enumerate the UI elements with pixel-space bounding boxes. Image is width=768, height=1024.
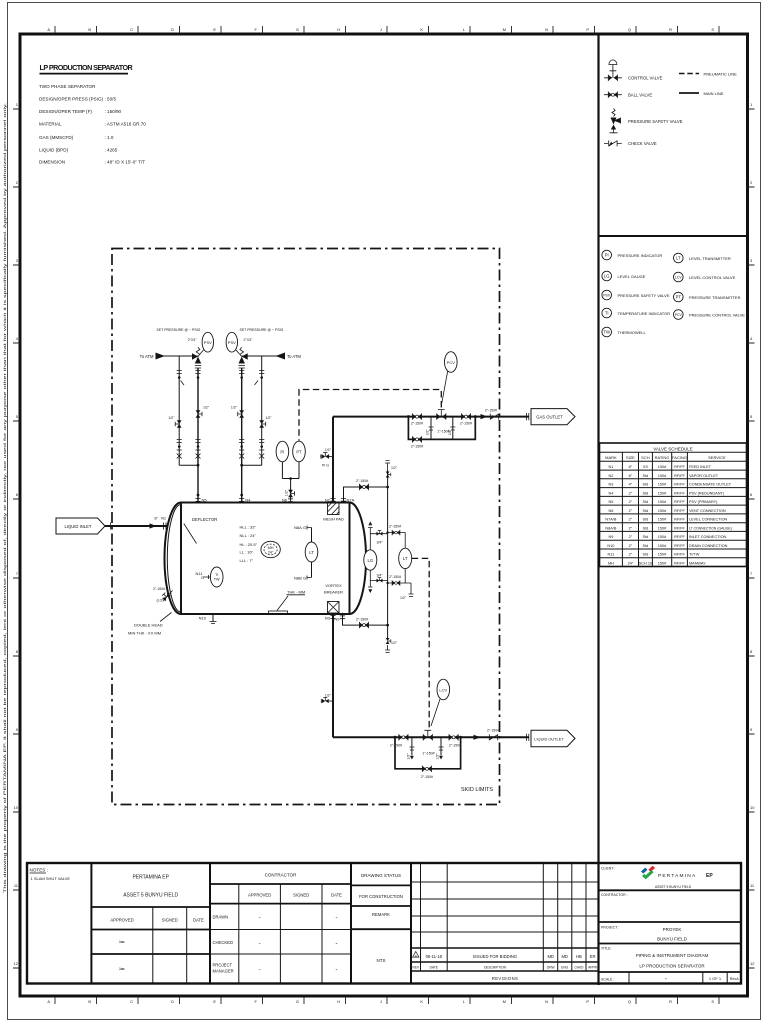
- svg-text:GAS (MMSCFD): GAS (MMSCFD): [39, 135, 74, 140]
- svg-text:N10: N10: [199, 616, 207, 621]
- left zone ticks and numbers: [13, 102, 20, 968]
- svg-text:10: 10: [750, 805, 755, 810]
- svg-text:LEVEL CONNECTION: LEVEL CONNECTION: [689, 518, 728, 522]
- svg-text:FACING: FACING: [672, 455, 687, 460]
- svg-text:05-11-18: 05-11-18: [426, 954, 443, 959]
- right zone ticks and numbers: [748, 102, 756, 968]
- svg-text:DIMENSION: DIMENSION: [39, 160, 65, 165]
- svg-text:G: G: [296, 999, 299, 1004]
- legend: pressure safety valve symbol: [610, 109, 621, 133]
- instrument bubble LT (internal): [305, 542, 318, 562]
- svg-text:N7A: N7A: [347, 498, 355, 503]
- svg-text:LLL : 7": LLL : 7": [240, 558, 254, 563]
- svg-text:REVISIONS: REVISIONS: [492, 976, 518, 981]
- svg-text:Std: Std: [643, 535, 649, 539]
- svg-text:N2: N2: [608, 474, 613, 478]
- svg-text:RF/FF: RF/FF: [674, 518, 685, 522]
- svg-text:M: M: [503, 999, 506, 1004]
- svg-text:Std: Std: [643, 509, 649, 513]
- liquid inlet banner: [56, 518, 105, 534]
- client cell with pertamina logo: [599, 866, 742, 972]
- svg-text:EP: EP: [706, 873, 713, 879]
- svg-text:DATE: DATE: [430, 965, 438, 969]
- svg-text:PI: PI: [280, 449, 284, 454]
- svg-text:BALL VALVE: BALL VALVE: [628, 93, 652, 98]
- svg-text:SCH 10: SCH 10: [639, 561, 652, 565]
- svg-text:PROYEK: PROYEK: [663, 927, 682, 932]
- pressure gauge tap on gas riser: [328, 456, 333, 458]
- internal LT standpipe with taps N8A/N8B: [294, 525, 318, 581]
- svg-text:2"-150#: 2"-150#: [356, 479, 368, 483]
- PSV-B inlet riser from nozzle N4: [231, 368, 251, 503]
- svg-text:1/2": 1/2": [436, 753, 440, 760]
- level gauge LG assembly: [364, 522, 388, 594]
- svg-text:DRAWN: DRAWN: [213, 915, 229, 920]
- svg-text:E: E: [213, 27, 216, 32]
- PSV-B spare leg: [242, 356, 273, 465]
- left head drain valve 2"-150# (LO): [153, 587, 173, 603]
- svg-text:DRAIN CONNECTION: DRAIN CONNECTION: [689, 544, 728, 548]
- svg-text:: 4265: : 4265: [105, 148, 118, 153]
- svg-text:K: K: [420, 999, 423, 1004]
- svg-text:-: -: [665, 977, 667, 983]
- svg-text:CHECKED: CHECKED: [213, 940, 233, 945]
- pneumatic signal line LT to LCV: [412, 558, 430, 729]
- svg-text:N: N: [545, 27, 548, 32]
- liquid line flow arrow: [474, 735, 481, 740]
- svg-text:Std: Std: [643, 553, 649, 557]
- svg-text:10: 10: [14, 805, 19, 810]
- PSV-B relief header to atmosphere: [242, 353, 302, 360]
- svg-text:N8B: N8B: [294, 576, 302, 581]
- svg-text:2"-150#: 2"-150#: [421, 775, 433, 779]
- bubble PI: [602, 250, 612, 260]
- svg-text:150#: 150#: [658, 474, 667, 478]
- svg-text:D: D: [171, 27, 174, 32]
- svg-text:DESIGN/OPER PRESS (PSIG): DESIGN/OPER PRESS (PSIG): [39, 97, 104, 102]
- svg-text:RF/FF: RF/FF: [674, 553, 685, 557]
- svg-text:150#: 150#: [658, 500, 667, 504]
- top zone ticks and letters: [47, 26, 719, 33]
- vessel level list: [240, 524, 258, 563]
- svg-text:1/2": 1/2": [426, 429, 430, 435]
- svg-text:HB: HB: [576, 954, 582, 959]
- svg-text:REMARK: REMARK: [372, 912, 390, 917]
- liquid line check valve: [489, 734, 497, 740]
- svg-text:G: G: [303, 576, 306, 581]
- feed inlet line to N1: [105, 516, 167, 530]
- svg-text:A: A: [47, 999, 50, 1004]
- PSV-A inlet riser from nozzle N5: [195, 368, 209, 503]
- svg-text:PSV (REDUNDANT): PSV (REDUNDANT): [689, 491, 725, 495]
- svg-text:PRESSURE SAFETY VALVE: PRESSURE SAFETY VALVE: [628, 119, 683, 124]
- svg-text:SCH: SCH: [641, 455, 650, 460]
- svg-text:≔: ≔: [119, 967, 125, 973]
- svg-text:ASSET 5 BUNYU FIELD: ASSET 5 BUNYU FIELD: [123, 893, 178, 899]
- svg-text:1/2": 1/2": [168, 416, 175, 420]
- svg-text:TI: TI: [215, 573, 218, 577]
- svg-text:TI/TW: TI/TW: [689, 553, 700, 557]
- svg-text:12: 12: [14, 961, 19, 966]
- svg-text:DATE: DATE: [331, 893, 342, 898]
- svg-text:PSV: PSV: [228, 340, 236, 345]
- svg-text:: ASTM A516 GR.70: : ASTM A516 GR.70: [105, 122, 147, 127]
- svg-text:SET PRESSURE @ ~ PSIG: SET PRESSURE @ ~ PSIG: [157, 328, 201, 332]
- level control valve LCV: [423, 730, 432, 740]
- bottom weir plate note: [269, 590, 306, 615]
- svg-text:N1: N1: [608, 465, 613, 469]
- svg-text:1/2": 1/2": [284, 489, 288, 496]
- svg-text:N6: N6: [608, 509, 613, 513]
- svg-text:SET PRESSURE @ ~ PSIG: SET PRESSURE @ ~ PSIG: [240, 328, 284, 332]
- svg-text:2"-150#: 2"-150#: [487, 728, 499, 732]
- svg-text:DEFLECTOR: DEFLECTOR: [192, 517, 217, 522]
- gas outlet banner: [531, 409, 575, 425]
- svg-text:PERTAMINA EP: PERTAMINA EP: [132, 875, 169, 881]
- drain tap on condensate riser: [328, 700, 333, 702]
- svg-text:G: G: [303, 525, 306, 530]
- svg-text:NOTES :: NOTES :: [30, 868, 48, 873]
- bubble LCV: [674, 272, 684, 282]
- svg-text:LG: LG: [604, 274, 610, 279]
- svg-text:TW: TW: [214, 578, 220, 582]
- svg-text:SCALE :: SCALE :: [601, 978, 614, 982]
- mesh pad demister: [323, 503, 344, 522]
- svg-text:N2: N2: [325, 498, 331, 503]
- svg-text:PSV: PSV: [204, 340, 212, 345]
- gas line block valve 2: [461, 413, 470, 419]
- svg-text:N5: N5: [202, 498, 208, 503]
- right column divider: [597, 34, 599, 985]
- svg-text:PRESSURE INDICATOR: PRESSURE INDICATOR: [618, 253, 663, 258]
- instrument legend right column: [674, 253, 684, 319]
- manhole MH 24": [261, 541, 280, 557]
- title cell: [601, 947, 708, 969]
- svg-text:MIN THK - XX MM: MIN THK - XX MM: [128, 631, 161, 636]
- svg-text:N6: N6: [282, 498, 288, 503]
- separator vessel V-100 shell: [165, 503, 367, 615]
- instrument legend left column: [602, 250, 612, 337]
- svg-text:150#: 150#: [658, 518, 667, 522]
- svg-text:LT: LT: [309, 550, 314, 555]
- svg-text:E: E: [213, 999, 216, 1004]
- svg-text:150#: 150#: [658, 483, 667, 487]
- vortex breaker: [324, 583, 343, 613]
- svg-text:1/2": 1/2": [407, 753, 411, 760]
- svg-text:PRESSURE TRANSMITTER: PRESSURE TRANSMITTER: [689, 295, 741, 300]
- svg-text:PI: PI: [605, 253, 609, 258]
- legend: check valve symbol: [604, 140, 622, 146]
- svg-text:H: H: [337, 999, 340, 1004]
- svg-text:SIGNED: SIGNED: [162, 918, 178, 923]
- svg-text:To ATM: To ATM: [140, 354, 154, 359]
- svg-text:LT: LT: [676, 256, 681, 261]
- pneumatic signal line PT to PCV: [299, 390, 441, 441]
- svg-text:RATING: RATING: [655, 455, 670, 460]
- PSV-A instrument bubble: [188, 332, 214, 354]
- svg-text:MH: MH: [608, 561, 614, 565]
- bleed tees between gas valves: [431, 417, 453, 440]
- svg-text:RF/FF: RF/FF: [674, 535, 685, 539]
- svg-text:Std: Std: [643, 518, 649, 522]
- svg-text:2"-150#: 2"-150#: [389, 575, 401, 579]
- svg-text:2"-150#: 2"-150#: [411, 444, 423, 448]
- svg-text:K: K: [420, 27, 423, 32]
- svg-text:P: P: [586, 27, 589, 32]
- svg-text:2"-150#: 2"-150#: [153, 587, 165, 591]
- svg-text:H: H: [337, 27, 340, 32]
- LT drain tee: [405, 583, 413, 597]
- svg-text:MATERIAL: MATERIAL: [39, 122, 62, 127]
- svg-text:SIGNED: SIGNED: [293, 893, 309, 898]
- svg-text:HL : 20.5": HL : 20.5": [240, 542, 258, 547]
- level transmitter LT assembly: [386, 525, 413, 600]
- svg-text:B: B: [88, 27, 91, 32]
- svg-text:N8A: N8A: [294, 525, 302, 530]
- svg-text:MD: MD: [561, 954, 568, 959]
- svg-text:To ATM: To ATM: [287, 354, 301, 359]
- svg-text:TI: TI: [605, 311, 609, 316]
- instrument bubble TI/TW: [210, 567, 223, 587]
- svg-text:TITLE:: TITLE:: [601, 947, 612, 951]
- svg-text:RF/FF: RF/FF: [674, 465, 685, 469]
- svg-text:3/4": 3/4": [376, 574, 383, 578]
- svg-text:LEVEL CONTROL VALVE: LEVEL CONTROL VALVE: [689, 275, 736, 280]
- svg-text:CHECK VALVE: CHECK VALVE: [628, 141, 657, 146]
- svg-text:PSV: PSV: [603, 294, 611, 298]
- svg-text:FOR CONSTRUCTION: FOR CONSTRUCTION: [359, 894, 403, 899]
- PSV-A relief header to atmosphere: [140, 353, 198, 360]
- bubble TW: [602, 327, 612, 337]
- svg-text:1/2": 1/2": [325, 693, 332, 697]
- revision header row: [413, 965, 598, 969]
- legend: main line sample: [679, 92, 699, 94]
- svg-text:-: -: [259, 916, 261, 922]
- svg-text:Q: Q: [628, 999, 631, 1004]
- valve schedule header row: [605, 455, 726, 460]
- svg-text:1/2": 1/2": [391, 641, 398, 645]
- svg-text:RF/FF: RF/FF: [674, 491, 685, 495]
- svg-text:C: C: [130, 999, 133, 1004]
- legend: pneumatic line sample: [679, 73, 699, 75]
- liquid outlet main line: [333, 728, 529, 779]
- liquid line block valve 2: [449, 734, 458, 740]
- svg-text:N4: N4: [608, 491, 613, 495]
- bubble LG: [602, 271, 612, 281]
- svg-text:150#: 150#: [658, 491, 667, 495]
- svg-text:24": 24": [628, 561, 634, 565]
- svg-text:Std: Std: [643, 544, 649, 548]
- svg-text:RF/FF: RF/FF: [674, 526, 685, 530]
- legend: ball valve symbol: [604, 92, 622, 98]
- svg-text:S: S: [711, 999, 714, 1004]
- svg-text:(LO): (LO): [157, 599, 164, 603]
- svg-text:DESIGN/OPER TEMP (F): DESIGN/OPER TEMP (F): [39, 109, 92, 114]
- svg-text:2"-150#: 2"-150#: [356, 618, 368, 622]
- svg-text:MARK: MARK: [605, 455, 617, 460]
- svg-text:N7A/B: N7A/B: [605, 518, 616, 522]
- svg-text:DESCRIPTION: DESCRIPTION: [484, 965, 506, 969]
- svg-text:J: J: [380, 27, 382, 32]
- bubble PCV: [674, 310, 684, 320]
- svg-text:N3: N3: [325, 616, 331, 621]
- svg-text:ENG: ENG: [561, 965, 568, 969]
- bubble LT: [674, 253, 684, 263]
- svg-text:1"-150#: 1"-150#: [422, 751, 434, 755]
- svg-text:NLL : 24": NLL : 24": [240, 533, 257, 538]
- condensate riser from nozzle N3: [321, 614, 335, 737]
- svg-text:150#: 150#: [658, 465, 667, 469]
- liquid line block valve 1: [399, 734, 408, 740]
- svg-text:FEED INLET: FEED INLET: [689, 465, 712, 469]
- svg-text:MESH PAD: MESH PAD: [323, 517, 344, 522]
- svg-text:LCV: LCV: [439, 687, 447, 692]
- svg-text:LIQUID OUTLET: LIQUID OUTLET: [534, 736, 564, 741]
- svg-text:2"-150#: 2"-150#: [390, 743, 402, 747]
- svg-text:SKID LIMITS: SKID LIMITS: [461, 787, 493, 793]
- svg-text:2"-150#: 2"-150#: [460, 422, 472, 426]
- svg-text:Std: Std: [643, 491, 649, 495]
- svg-text:2"-150#: 2"-150#: [389, 525, 401, 529]
- svg-text:B: B: [88, 999, 91, 1004]
- svg-text:PT: PT: [676, 295, 682, 300]
- svg-text:RF/FF: RF/FF: [674, 544, 685, 548]
- svg-text:D: D: [171, 999, 174, 1004]
- svg-text:APPR: APPR: [588, 965, 597, 969]
- revision row A: [413, 952, 419, 958]
- svg-text:A: A: [47, 27, 50, 32]
- PI and PT bubbles on nozzle N6: [276, 441, 305, 502]
- svg-text:TWO PHASE SEPARATOR: TWO PHASE SEPARATOR: [39, 84, 96, 89]
- svg-text:HLL : 32": HLL : 32": [240, 524, 257, 529]
- notes cell: [30, 868, 71, 882]
- pertamina logo mark: [641, 868, 648, 874]
- svg-text:This drawing is the property o: This drawing is the property of PERTAMIN…: [2, 103, 7, 893]
- svg-text:LIQUID (BPD): LIQUID (BPD): [39, 148, 69, 153]
- bottom drain nozzle N10: [199, 614, 217, 624]
- svg-text:N9: N9: [608, 535, 613, 539]
- vessel spec list: [39, 84, 146, 165]
- svg-text:RevA: RevA: [730, 977, 739, 981]
- svg-text:: 1.0: : 1.0: [105, 135, 114, 140]
- svg-text:REV: REV: [413, 965, 420, 969]
- double head note: [128, 613, 172, 636]
- svg-text:ER: ER: [590, 954, 596, 959]
- svg-text:12: 12: [750, 961, 755, 966]
- PSV-B instrument bubble: [226, 332, 253, 354]
- svg-text:LEVEL GAUGE: LEVEL GAUGE: [618, 274, 646, 279]
- svg-text:LT: LT: [403, 556, 408, 561]
- svg-text:R: R: [669, 999, 672, 1004]
- svg-text:LCV: LCV: [675, 276, 682, 280]
- svg-text:1/2": 1/2": [391, 466, 398, 470]
- bridle bottom line from nozzle N9: [334, 613, 387, 629]
- gas bypass loop: [408, 417, 475, 440]
- svg-text:: 150/90: : 150/90: [105, 109, 122, 114]
- svg-text:N3: N3: [608, 483, 613, 487]
- gas line block valve 1: [412, 413, 421, 419]
- svg-text:P: P: [586, 999, 589, 1004]
- svg-text:THERMOWELL: THERMOWELL: [618, 330, 647, 335]
- svg-text:MH: MH: [268, 546, 274, 550]
- svg-text:LP PRODUCTION SEPARATOR: LP PRODUCTION SEPARATOR: [639, 964, 705, 969]
- bubble PSV: [602, 290, 612, 300]
- level bridle standpipe: [385, 461, 398, 653]
- svg-text:-: -: [259, 941, 261, 947]
- svg-text:-: -: [336, 941, 338, 947]
- svg-text:-: -: [336, 968, 338, 974]
- svg-text:VALVE SCHEDULE: VALVE SCHEDULE: [653, 447, 693, 452]
- svg-text:G: G: [201, 575, 204, 580]
- svg-text:PERTAMINA: PERTAMINA: [658, 873, 696, 879]
- svg-text:1/2": 1/2": [448, 429, 452, 435]
- svg-text:VAPOR OUTLET: VAPOR OUTLET: [689, 474, 719, 478]
- svg-text:CONTROL VALVE: CONTROL VALVE: [628, 76, 663, 81]
- svg-text:1/2": 1/2": [266, 416, 273, 420]
- svg-text:PRESSURE SAFETY VALVE: PRESSURE SAFETY VALVE: [618, 293, 670, 298]
- skid limits boundary: [112, 249, 500, 805]
- svg-text:1 OF 1: 1 OF 1: [709, 976, 722, 981]
- svg-text:N8A/B: N8A/B: [605, 526, 616, 530]
- svg-text:TW: TW: [603, 330, 610, 335]
- svg-text:INLET CONNECTION: INLET CONNECTION: [689, 535, 727, 539]
- svg-text:MANWAY: MANWAY: [689, 561, 706, 565]
- svg-text:Std: Std: [643, 483, 649, 487]
- svg-text:1 SLAM SHUT VALVE: 1 SLAM SHUT VALVE: [31, 876, 71, 881]
- svg-text:N5: N5: [608, 500, 613, 504]
- bubble TI: [602, 308, 612, 318]
- svg-text:-: -: [259, 968, 261, 974]
- svg-text:RF/FF: RF/FF: [674, 561, 685, 565]
- svg-text:CLIENT :: CLIENT :: [601, 867, 615, 871]
- svg-text:3/4": 3/4": [376, 541, 383, 545]
- gas line flow arrow: [481, 414, 488, 419]
- svg-text:≔: ≔: [119, 940, 125, 946]
- svg-text:150#: 150#: [658, 535, 667, 539]
- svg-text:150#: 150#: [658, 526, 667, 530]
- svg-text:2"-150#: 2"-150#: [411, 422, 423, 426]
- svg-text:NTS: NTS: [377, 958, 386, 963]
- deflector label and plate: [184, 517, 217, 544]
- company approval block: [91, 875, 210, 984]
- svg-text:ISSUED FOR BIDDING: ISSUED FOR BIDDING: [473, 954, 517, 959]
- svg-text:LP PRODUCTION SEPARATOR: LP PRODUCTION SEPARATOR: [40, 63, 134, 72]
- svg-text:G: G: [296, 27, 299, 32]
- svg-text:N11: N11: [608, 553, 615, 557]
- title block outer frame: [27, 863, 741, 984]
- left margin confidentiality note (rotated): [2, 103, 7, 893]
- legend section divider: [599, 235, 748, 237]
- svg-text:MAIN LINE: MAIN LINE: [704, 91, 724, 96]
- revision table: [411, 863, 599, 981]
- svg-text:DRAWING STATUS: DRAWING STATUS: [361, 873, 401, 878]
- svg-text:PNEUMATIC LINE: PNEUMATIC LINE: [704, 71, 738, 76]
- PSV-B angle relief valve: [239, 347, 248, 368]
- valve schedule table frame: [600, 443, 747, 567]
- svg-text:PROJECT: PROJECT: [213, 963, 233, 968]
- svg-text:C: C: [130, 27, 133, 32]
- svg-text:DATE: DATE: [193, 918, 204, 923]
- svg-text:150#: 150#: [658, 561, 667, 565]
- svg-text:N10: N10: [607, 544, 614, 548]
- svg-text:PRESSURE CONTROL VALVE: PRESSURE CONTROL VALVE: [689, 312, 745, 317]
- svg-text:2"X3": 2"X3": [244, 338, 253, 342]
- svg-text:DOUBLE HEAD: DOUBLE HEAD: [134, 623, 163, 628]
- instrument bubble LT: [399, 548, 412, 568]
- LCV instrument bubble: [431, 679, 450, 726]
- svg-text:RF/FF: RF/FF: [674, 509, 685, 513]
- svg-text:S: S: [711, 27, 714, 32]
